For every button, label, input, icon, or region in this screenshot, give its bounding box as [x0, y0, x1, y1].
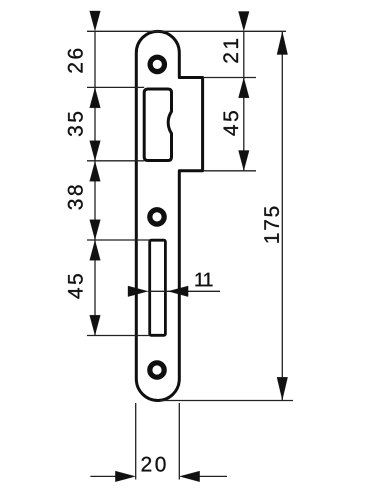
label 175 — [264, 207, 279, 243]
deadbolt slot — [150, 240, 166, 335]
arrow down above plate top, left chain — [90, 11, 101, 31]
width dimension line 20 — [90, 475, 227, 477]
arrow down above y161 tick — [90, 141, 101, 161]
arrow up below y88 tick — [90, 88, 101, 108]
bottom tangent extension line — [160, 400, 293, 402]
arrow up below y161 tick — [90, 162, 101, 182]
arrow down above y335.5 tick — [90, 315, 101, 335]
arrow down above plate top, right chain — [239, 12, 250, 31]
top tangent extension line — [87, 30, 286, 32]
overall dimension line 175 — [281, 31, 283, 400]
label 26 — [68, 49, 83, 73]
width extension line left — [135, 403, 137, 480]
label 45 left — [68, 274, 83, 299]
screw hole top — [150, 57, 164, 71]
screw hole bottom — [150, 363, 164, 377]
arrow left at plate right edge — [180, 471, 200, 482]
strike plate outline — [136, 31, 202, 400]
arrow right at plate left edge — [115, 471, 135, 482]
label 11 — [195, 273, 212, 286]
left tick y161 (latch cutout bottom) — [87, 160, 144, 162]
right dimension chain line — [243, 31, 245, 171]
label 38 — [68, 185, 83, 209]
screw hole middle — [150, 210, 164, 224]
arrow down above y170.8 tick — [239, 151, 250, 171]
label 35 — [68, 112, 83, 136]
left tick y335.5 (slot bottom) — [87, 335, 150, 337]
arrow up below y77.5 tick — [239, 78, 250, 98]
arrow left at slot right edge — [168, 286, 188, 297]
slot width dimension line 11 — [148, 290, 220, 292]
right tick y77.5 (tab top) — [203, 77, 256, 79]
arrow right at slot left edge — [128, 286, 148, 297]
left tick y240 (slot top) — [87, 239, 150, 241]
left dimension chain line — [94, 31, 96, 335]
arrow down at bottom of 175 line — [277, 377, 288, 400]
label 45 right — [224, 111, 239, 136]
label 21 — [223, 39, 238, 63]
width extension line right — [178, 403, 180, 480]
arrow up at top of 175 line — [277, 32, 288, 55]
left tick y88 (latch cutout top) — [87, 86, 144, 88]
right tick y170.8 (tab bottom) — [203, 170, 256, 172]
label 20 — [142, 457, 166, 472]
arrow down above y240 tick — [90, 220, 101, 240]
latch cutout — [144, 89, 171, 161]
arrow up below y240 tick — [90, 241, 101, 261]
